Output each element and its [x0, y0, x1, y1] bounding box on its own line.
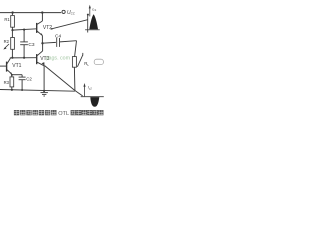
wire C3 top — [23, 30, 25, 42]
capacitor C3 — [20, 41, 28, 43]
junction dot — [11, 57, 13, 59]
wire output diagonal to speaker graph — [51, 20, 87, 29]
svg-text:VT2: VT2 — [43, 25, 52, 31]
svg-text:R3: R3 — [4, 80, 10, 85]
svg-text:R2: R2 — [4, 39, 10, 44]
wire to C2 — [12, 74, 22, 76]
wire — [11, 27, 13, 37]
svg-text:UCC: UCC — [67, 10, 76, 16]
supply terminal — [62, 10, 65, 13]
transistor VT3 — [36, 54, 38, 64]
wire — [11, 74, 13, 77]
collector bus — [10, 57, 37, 59]
svg-text:Ic2: Ic2 — [88, 85, 93, 91]
junction dot — [41, 11, 43, 13]
waveform half-sine bottom — [90, 97, 99, 107]
wire — [87, 14, 89, 33]
junction dot — [43, 90, 45, 92]
svg-text:C2: C2 — [26, 76, 32, 81]
junction dot node M — [41, 42, 43, 44]
ground — [41, 92, 48, 94]
svg-text:pags. com: pags. com — [46, 55, 71, 61]
svg-text:R1: R1 — [4, 17, 10, 22]
bottom rail — [0, 90, 75, 92]
wire D2 — [75, 91, 83, 96]
potentiometer RP — [11, 38, 15, 50]
capacitor C2 — [21, 75, 23, 77]
wire — [43, 66, 45, 91]
waveform axis arrow top — [89, 7, 91, 17]
svg-text:C4: C4 — [55, 33, 61, 39]
capacitor C4 — [43, 41, 56, 44]
wire — [23, 45, 25, 58]
svg-text:RL: RL — [84, 61, 89, 67]
junction dot — [11, 89, 13, 91]
junction dot — [23, 29, 25, 31]
svg-text:C3: C3 — [28, 42, 34, 48]
transistor VT2 — [36, 23, 38, 33]
waveform axis arrow bottom — [84, 85, 86, 96]
svg-text:VT1: VT1 — [12, 63, 21, 69]
caption 典型互补对称式 OTL 功率放大电路 — [14, 110, 104, 117]
waveform time axis top — [85, 29, 100, 31]
junction dot — [11, 29, 13, 31]
svg-text:OTL: OTL — [58, 111, 69, 117]
wire node to VT2 base — [12, 29, 36, 30]
waveform time axis bottom — [81, 96, 104, 98]
top supply rail — [0, 12, 61, 14]
wire — [11, 87, 13, 90]
waveform half-sine top — [89, 14, 98, 29]
wire — [11, 50, 13, 58]
resistor R3 — [10, 77, 14, 87]
decorative outline right of RL — [94, 59, 103, 64]
resistor RL — [72, 57, 76, 68]
junction dot — [11, 74, 13, 76]
wire long to RL bottom — [45, 66, 75, 91]
svg-text:Ic1: Ic1 — [92, 6, 97, 12]
junction dot — [11, 11, 13, 13]
junction dot — [23, 57, 25, 59]
resistor R1 — [11, 13, 13, 15]
wiper arrow — [4, 44, 9, 49]
transistor VT1 — [0, 65, 6, 67]
